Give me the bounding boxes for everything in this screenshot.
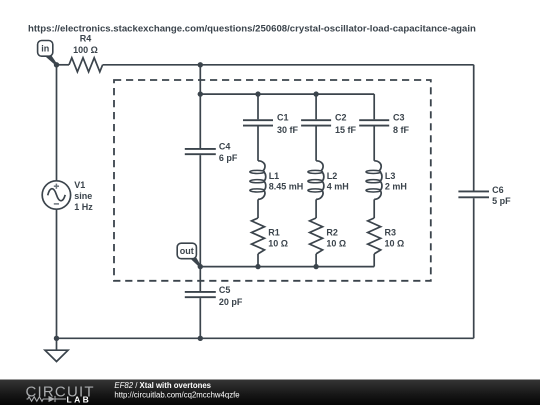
wire C4 branch top — [199, 65, 201, 148]
branch 2 — [301, 94, 331, 267]
node branch2 top junction — [313, 91, 318, 96]
svg-text:8 fF: 8 fF — [393, 125, 410, 135]
capacitor C3 — [359, 120, 389, 125]
wire branch3 mid2 — [373, 199, 375, 218]
wire top horizontal right — [103, 64, 474, 66]
capacitor C2 — [301, 120, 331, 125]
wire branch2 bottom — [315, 254, 317, 267]
svg-text:10 Ω: 10 Ω — [385, 239, 405, 249]
svg-text:in: in — [41, 44, 49, 54]
wire branch3 bottom — [373, 254, 375, 267]
wire branch3 mid1 — [373, 127, 375, 161]
node ground junction — [54, 336, 59, 341]
inductor L1 — [258, 161, 266, 200]
svg-text:R4: R4 — [80, 34, 92, 44]
resistor R4 — [69, 58, 103, 72]
wire C5 branch top — [199, 267, 201, 291]
svg-text:http://circuitlab.com/cq2mcchw: http://circuitlab.com/cq2mcchw4qzfe — [114, 390, 239, 399]
svg-text:C3: C3 — [393, 113, 405, 123]
svg-text:8.45 mH: 8.45 mH — [269, 182, 304, 192]
capacitor C5 — [185, 292, 216, 297]
wire branch1 top — [257, 94, 259, 119]
svg-text:C4: C4 — [219, 142, 231, 152]
node branch2 bottom junction — [313, 264, 318, 269]
branch 1 — [243, 94, 273, 267]
wire bottom horizontal — [57, 337, 474, 339]
capacitor C1 — [243, 120, 273, 125]
svg-text:10 Ω: 10 Ω — [326, 239, 346, 249]
wire branch1 bottom — [257, 254, 259, 267]
svg-text:6 pF: 6 pF — [219, 153, 238, 163]
wire right vertical lower — [473, 198, 475, 338]
logo schematic line — [27, 396, 67, 402]
svg-text:V1: V1 — [74, 180, 85, 190]
wire C4 branch bottom — [199, 155, 201, 267]
node in junction — [54, 62, 59, 67]
svg-text:C5: C5 — [219, 285, 231, 295]
svg-text:5 pF: 5 pF — [492, 196, 511, 206]
wire right vertical upper — [473, 65, 475, 191]
wire branch1 mid2 — [257, 199, 259, 218]
svg-text:https://electronics.stackexcha: https://electronics.stackexchange.com/qu… — [28, 24, 476, 35]
node C5 bottom junction — [198, 336, 203, 341]
node branch1 top junction — [255, 91, 260, 96]
resistor R2 — [310, 218, 323, 254]
inductor L3 — [374, 161, 382, 200]
node top C4 junction — [198, 62, 203, 67]
wire branch2 top — [315, 94, 317, 119]
svg-text:R1: R1 — [268, 228, 280, 238]
voltage source V1 — [42, 181, 70, 209]
wire C5 branch bottom — [199, 298, 201, 338]
svg-text:R2: R2 — [326, 228, 338, 238]
svg-text:30 fF: 30 fF — [277, 125, 299, 135]
capacitor C6 — [458, 191, 489, 197]
svg-text:EF82 / Xtal with overtones: EF82 / Xtal with overtones — [114, 381, 211, 390]
ground — [45, 338, 68, 361]
wire left vertical upper — [56, 65, 58, 181]
svg-text:100 Ω: 100 Ω — [73, 45, 98, 55]
wire branch1 mid1 — [257, 127, 259, 161]
inductor L2 — [316, 161, 324, 200]
svg-text:2 mH: 2 mH — [385, 182, 407, 192]
svg-text:out: out — [180, 246, 194, 256]
svg-text:15 fF: 15 fF — [335, 125, 357, 135]
svg-text:LAB: LAB — [67, 394, 92, 404]
wire inner bottom bus — [200, 266, 374, 268]
svg-text:sine: sine — [74, 191, 92, 201]
svg-text:20 pF: 20 pF — [219, 297, 243, 307]
wire top horizontal — [57, 64, 70, 66]
svg-text:C2: C2 — [335, 113, 347, 123]
svg-text:C1: C1 — [277, 113, 289, 123]
svg-text:L1: L1 — [269, 171, 280, 181]
node label in — [38, 41, 58, 66]
resistor R3 — [368, 218, 381, 254]
wire inner top bus — [200, 93, 374, 95]
wire branch2 mid2 — [315, 199, 317, 218]
capacitor C4 — [185, 149, 216, 154]
svg-text:L3: L3 — [385, 171, 396, 181]
resistor R1 — [252, 218, 265, 254]
wire left vertical lower — [56, 209, 58, 338]
wire branch3 top — [373, 94, 375, 119]
svg-text:4 mH: 4 mH — [327, 182, 349, 192]
svg-text:10 Ω: 10 Ω — [268, 239, 288, 249]
svg-text:1 Hz: 1 Hz — [74, 202, 93, 212]
crystal dashed box — [114, 80, 431, 281]
branch 3 — [359, 94, 389, 267]
node label out — [177, 243, 201, 267]
svg-text:L2: L2 — [327, 171, 338, 181]
node out junction — [198, 264, 203, 269]
svg-text:R3: R3 — [385, 228, 397, 238]
node branch1 bottom junction — [255, 264, 260, 269]
svg-text:C6: C6 — [492, 185, 504, 195]
node inner top junction — [198, 91, 203, 96]
wire branch2 mid1 — [315, 127, 317, 161]
